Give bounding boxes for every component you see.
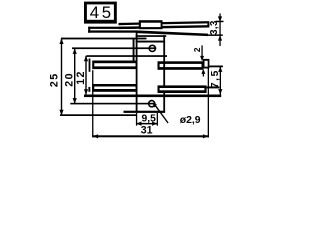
wire right spring S4: [158, 85, 207, 93]
wire column top line: [136, 35, 167, 37]
svg-text:7,5: 7,5: [210, 69, 221, 88]
svg-text:45: 45: [90, 3, 114, 22]
dimension 12 line: [85, 56, 86, 95]
wire lower-left strip S_L bottom border: [88, 30, 136, 32]
dimension 20 line: [74, 48, 75, 103]
dimension 3,3 line: [219, 14, 220, 47]
node F_B left nub: [88, 87, 90, 92]
wire sloping spring S2: [137, 30, 209, 36]
wire S2 extension line: [208, 34, 223, 36]
wire extension line 25: [61, 38, 147, 40]
wire clamp plate left edge: [133, 38, 135, 61]
svg-text:12: 12: [75, 70, 87, 85]
wire extension line 9,5 right: [157, 113, 158, 126]
leader line diameter: [154, 104, 169, 123]
wire S_T right end cap: [207, 21, 209, 27]
dimension 31 line: [93, 135, 209, 137]
wire S_L left end cap: [88, 27, 90, 33]
svg-text:ø2,9: ø2,9: [180, 115, 201, 126]
wire column internal line: [136, 41, 165, 43]
node rivet on S3: [203, 59, 210, 69]
svg-text:2: 2: [193, 47, 202, 52]
svg-text:3,3: 3,3: [209, 20, 220, 35]
wire top spring strip S_T bottom border: [119, 25, 209, 29]
dimension frame 45: [84, 2, 117, 24]
wire long layer line: [84, 95, 221, 98]
dimension 7,5 line: [220, 66, 221, 94]
dimension 2 arrow bottom: [203, 72, 204, 77]
svg-text:20: 20: [64, 72, 76, 87]
wire extension line 9,5 left: [136, 113, 137, 126]
wire bottom slot line: [70, 103, 155, 105]
screw U1 top: [149, 45, 155, 51]
wire extension line 12 top: [86, 55, 167, 57]
wire right spring S3: [158, 61, 204, 70]
wire column right edge lower: [163, 93, 165, 112]
svg-text:9,5: 9,5: [142, 113, 157, 124]
wire rivet extension line: [209, 66, 223, 68]
wire S4 extension line: [207, 86, 220, 88]
wire left finger F_A: [92, 61, 137, 70]
node contact block B_T: [139, 20, 163, 29]
svg-text:25: 25: [48, 73, 60, 88]
dimension 2 arrow top: [201, 45, 202, 56]
wire extension line 31 right: [208, 69, 209, 138]
node F_A left nub: [89, 59, 91, 72]
svg-text:31: 31: [141, 124, 153, 136]
wire lower-left strip S_L top border: [88, 27, 136, 29]
wire bottom extension line 25: [60, 114, 137, 116]
screw U2 bottom: [149, 101, 155, 107]
wire top spring strip S_T top border: [119, 21, 209, 25]
wire left finger F_B: [92, 84, 137, 92]
dimension 9,5 line: [136, 123, 158, 125]
dimension 25 line: [61, 39, 62, 116]
wire part bottom edge: [124, 111, 166, 113]
wire tick 3,3 top: [216, 21, 224, 23]
wire column left edge: [136, 31, 138, 113]
wire top slot line: [72, 47, 156, 49]
wire column right edge upper: [163, 35, 165, 85]
wire extension line 31 left: [92, 70, 93, 137]
